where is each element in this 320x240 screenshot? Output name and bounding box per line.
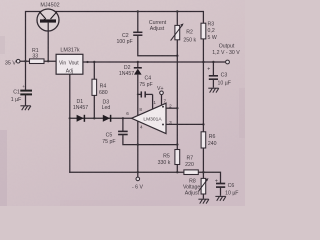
resistor R1 xyxy=(30,48,45,63)
wire pin1 xyxy=(152,94,154,109)
junction dot adj/diode row xyxy=(69,117,71,119)
wire C1 branch xyxy=(25,61,27,89)
junction dot R4 bottom xyxy=(93,117,95,119)
op-amp input marks xyxy=(162,106,164,108)
transistor Q1 MJ4502 xyxy=(37,2,60,61)
wire pin2 bus xyxy=(176,40,178,150)
wire adj to -6V rail xyxy=(69,74,71,172)
op-amp U2 LM301A xyxy=(132,103,167,133)
junction dot C3 top xyxy=(212,61,214,63)
wire top rail xyxy=(26,12,204,62)
junction dot C4 node xyxy=(137,93,139,95)
capacitor C5 xyxy=(102,118,177,145)
node input 35V terminal xyxy=(16,59,20,63)
diode D2 1N457 xyxy=(119,62,142,94)
ground below C1 xyxy=(20,106,31,110)
wire vout line xyxy=(83,61,226,63)
resistor R3 xyxy=(201,22,217,63)
resistor R5 xyxy=(158,150,180,173)
ground below R8 xyxy=(198,199,209,203)
wire -6V rail right of R7 xyxy=(198,172,220,183)
junction dot C5 wire pin4 xyxy=(137,143,139,145)
junction dot R5 bottom xyxy=(176,171,178,173)
potentiometer R2 xyxy=(171,12,197,44)
diode D3 Led xyxy=(102,100,111,122)
junction dot rail C2 xyxy=(137,10,139,12)
wire diode row / opamp output xyxy=(70,117,132,119)
junction dot C5 top xyxy=(122,117,124,119)
diode D1 1N457 xyxy=(73,99,88,122)
wire pin3 xyxy=(166,123,203,125)
wire pin8 xyxy=(137,94,139,115)
capacitor C1 xyxy=(11,84,32,103)
junction dot R4 top xyxy=(93,61,95,63)
junction dot R8 top xyxy=(202,171,204,173)
junction dot rail R2 xyxy=(176,10,178,12)
junction dot R5 top xyxy=(176,143,178,145)
resistor R7 xyxy=(184,156,198,175)
wire input xyxy=(20,60,56,62)
regulator U1 LM317k xyxy=(56,48,83,75)
resistor R4 xyxy=(92,62,108,118)
junction dot base xyxy=(47,60,49,62)
potentiometer R8 xyxy=(183,172,209,199)
junction dot pin2 bus xyxy=(176,107,178,109)
node -6V terminal xyxy=(132,172,143,190)
ground below C6 xyxy=(215,196,226,200)
capacitor C3 xyxy=(207,62,231,88)
junction dot input xyxy=(24,60,26,62)
wire pin2 xyxy=(166,107,177,109)
junction dot R6 bottom xyxy=(202,171,204,173)
resistor R6 xyxy=(201,62,217,172)
wire pin7 xyxy=(161,95,163,106)
junction dot D2 top xyxy=(137,61,139,63)
node output terminal xyxy=(226,60,230,64)
paper noise xyxy=(0,0,245,206)
capacitor C6 xyxy=(215,178,239,196)
junction dot pin3 R6 column xyxy=(202,123,204,125)
wire pin4 xyxy=(137,121,139,172)
node V+ terminal xyxy=(160,91,164,95)
scan artifacts xyxy=(0,130,7,206)
wire -6V rail left of R7 xyxy=(70,171,184,173)
junction dot C2 wire to bus xyxy=(176,55,178,57)
junction dot R3 bottom xyxy=(202,61,204,63)
ground below C3 xyxy=(208,88,219,92)
capacitor C4 xyxy=(138,76,153,98)
capacitor C2 xyxy=(117,12,178,56)
junction dot LM317 Vout pin xyxy=(86,61,88,63)
junction dot -6V rail pin4 xyxy=(137,171,139,173)
